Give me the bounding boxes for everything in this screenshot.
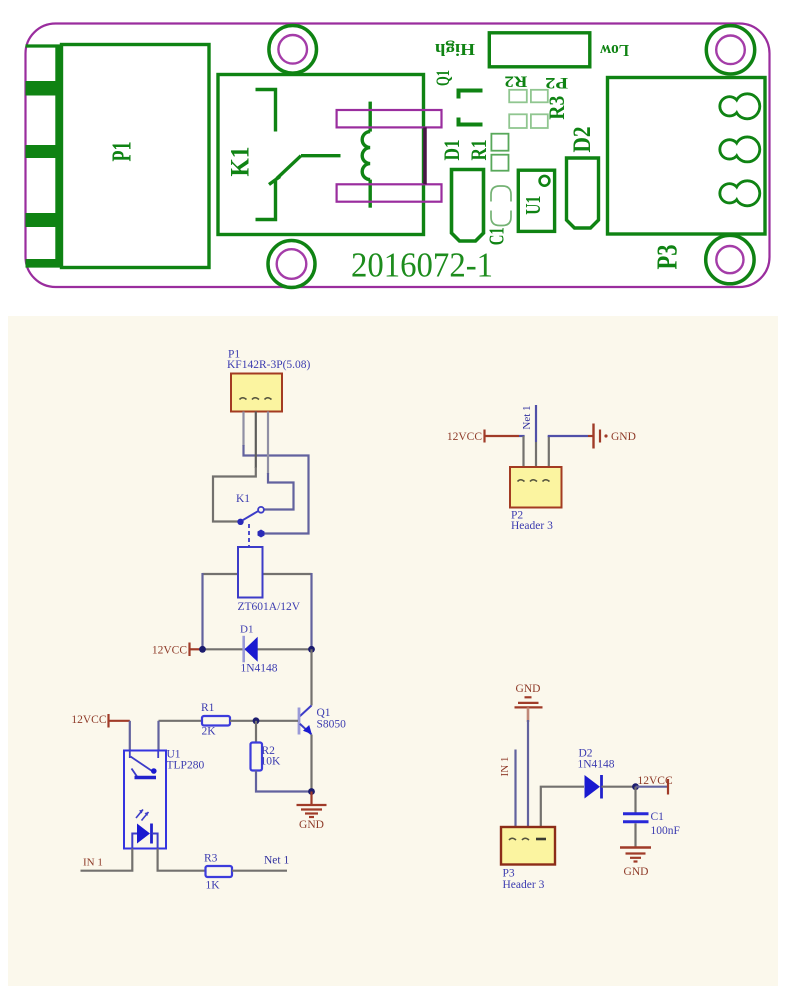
ground (top, inverted): [515, 683, 543, 722]
label C1 (schematic): [651, 811, 680, 837]
wire P2 pin1: [519, 436, 525, 467]
label P3: [651, 245, 683, 270]
resistor R2 / header P2 pads (pale): [509, 90, 548, 128]
capacitor C1 (schematic): [623, 814, 649, 822]
U1 led arrows: [136, 810, 149, 821]
relay K1 contact NO: [258, 507, 264, 513]
board outline: [26, 24, 770, 288]
svg-text:IN 1: IN 1: [499, 757, 511, 777]
mounting hole top-right: [706, 26, 754, 74]
P3 pin 2: [720, 137, 760, 162]
svg-text:Q1: Q1: [317, 707, 331, 719]
svg-text:KF142R-3P(5.08): KF142R-3P(5.08): [227, 359, 311, 371]
wire base row: [159, 720, 203, 722]
K1 top-left bracket: [256, 90, 276, 132]
svg-text:K1: K1: [236, 493, 250, 505]
wire P1 pin3: [262, 412, 294, 510]
wire in1 down to header: [514, 750, 516, 828]
resistor R1 (schematic): [202, 716, 230, 726]
wire R2 bottom: [256, 771, 312, 792]
wire gnd down to header: [527, 720, 529, 827]
wire C1 to gnd: [634, 823, 636, 847]
diode D1 (schematic): [244, 636, 258, 663]
K1 bottom-left bracket: [256, 181, 276, 220]
junction 12vcc: [632, 783, 639, 790]
svg-text:C1: C1: [484, 227, 508, 245]
connector P1 footprint: [26, 45, 210, 268]
svg-text:2K: 2K: [202, 726, 217, 738]
wire diode row: [203, 648, 312, 650]
power port 12VCC (P2): [447, 430, 519, 444]
P3 pin 1: [720, 94, 760, 119]
svg-text:12VCC: 12VCC: [638, 775, 673, 787]
relay K1 coil: [238, 547, 263, 598]
label Net 1 (vertical): [521, 405, 533, 429]
wire junction to C1: [634, 787, 636, 813]
label D1 (pcb): [439, 140, 464, 161]
label R2 (schematic): [261, 745, 282, 768]
U1 phototransistor: [130, 751, 158, 778]
wire IN1: [81, 849, 133, 871]
label P2 (schematic): [511, 510, 553, 533]
mounting hole bottom-middle: [268, 241, 315, 288]
label High: [434, 40, 475, 59]
wire collector: [310, 649, 312, 705]
label R1 (pcb): [466, 140, 491, 161]
power port 12VCC (diode row): [152, 643, 203, 657]
jumper selector box High/Low: [489, 33, 590, 67]
label R1 (schematic): [201, 702, 216, 738]
svg-text:12VCC: 12VCC: [71, 714, 106, 726]
resistor R1 pads: [491, 134, 508, 171]
junction gnd: [308, 788, 315, 795]
power port GND (P2): [588, 424, 636, 449]
wire P1 pin1: [244, 412, 309, 534]
wire P2 pin2 / net1: [535, 405, 537, 467]
relay K1 blade: [243, 511, 259, 521]
svg-text:1N4148: 1N4148: [578, 759, 615, 771]
transistor Q1 (schematic): [299, 706, 312, 735]
label coil value: [238, 601, 301, 613]
capacitor C1 footprint (dashed): [491, 186, 511, 226]
svg-text:GND: GND: [611, 431, 636, 443]
schematic background: [8, 316, 778, 986]
U1 led: [132, 824, 157, 849]
mounting hole top-middle: [269, 26, 317, 74]
label K1: [226, 147, 255, 177]
svg-text:R1: R1: [201, 702, 215, 714]
junction left: [199, 646, 206, 653]
svg-text:P3: P3: [503, 868, 515, 880]
svg-text:R3: R3: [544, 96, 569, 120]
K1 coil: [362, 102, 370, 208]
P3 pin 3: [720, 181, 760, 206]
label IN 1 (vertical): [499, 757, 511, 777]
ground (right bottom): [620, 848, 651, 879]
K1 switch: [269, 156, 341, 185]
svg-text:K1: K1: [226, 147, 255, 177]
wire 12vcc to U1 pin: [129, 721, 131, 751]
svg-text:100nF: 100nF: [651, 825, 680, 837]
connector P3 footprint: [608, 78, 766, 235]
svg-text:Net 1: Net 1: [264, 855, 289, 867]
board title 2016072-1: [351, 246, 493, 285]
svg-text:U1: U1: [521, 196, 545, 215]
diode D1 footprint: [452, 170, 484, 242]
label header P3 (schematic): [503, 868, 545, 892]
svg-text:P2: P2: [545, 74, 568, 91]
label R3: [544, 96, 569, 120]
svg-text:GND: GND: [624, 866, 649, 878]
label Low: [599, 41, 629, 60]
connector P1 (schematic): [231, 374, 282, 412]
diode D2 footprint: [567, 158, 599, 228]
relay K1 actuator dashed: [248, 524, 250, 547]
relay K1 footprint box: [218, 75, 424, 235]
label P1: [106, 142, 136, 162]
wire coil left down: [201, 573, 203, 649]
wire P2 pin3: [548, 436, 588, 467]
svg-text:Header 3: Header 3: [511, 520, 553, 532]
label U1 (schematic): [167, 749, 205, 772]
svg-text:High: High: [434, 40, 475, 59]
svg-text:TLP280: TLP280: [167, 760, 205, 772]
wire P1 pin2: [213, 412, 256, 522]
svg-text:C1: C1: [651, 811, 665, 823]
label IN 1: [83, 857, 103, 869]
label R2: [504, 73, 527, 90]
svg-text:Low: Low: [599, 41, 629, 60]
resistor R3 (schematic): [206, 866, 233, 877]
header P3 (schematic): [501, 827, 555, 865]
svg-text:Header 3: Header 3: [503, 879, 545, 891]
svg-text:P1: P1: [106, 142, 136, 162]
svg-text:10K: 10K: [261, 756, 282, 768]
header P2 (schematic): [510, 467, 562, 508]
wire diode to junction: [602, 786, 636, 788]
resistor R2 (schematic): [251, 743, 263, 771]
wire led cathode down: [158, 849, 206, 871]
wire coil right down: [310, 573, 312, 649]
label Q1 (schematic): [317, 707, 347, 731]
power port 12VCC (base row): [71, 714, 129, 728]
power port 12VCC (right): [636, 775, 673, 795]
label C1 (pcb): [484, 227, 508, 245]
svg-text:IN 1: IN 1: [83, 857, 103, 869]
svg-text:2016072-1: 2016072-1: [351, 246, 493, 285]
ground (left): [297, 792, 327, 832]
relay K1 contact NC pad: [258, 530, 265, 538]
wire U1 pin4 up: [157, 721, 159, 751]
svg-text:12VCC: 12VCC: [152, 645, 187, 657]
svg-text:GND: GND: [516, 683, 541, 695]
relay K1 pole: [237, 519, 243, 525]
relay footprint pad bar bottom (magenta): [337, 184, 442, 201]
label R3 (schematic): [204, 853, 220, 892]
svg-text:R2: R2: [504, 73, 527, 90]
svg-text:Net 1: Net 1: [521, 405, 533, 429]
label K1 (schematic): [236, 493, 250, 505]
svg-text:P3: P3: [651, 245, 683, 270]
diode D2 (schematic): [585, 775, 602, 799]
svg-text:1K: 1K: [206, 880, 221, 892]
wire emitter down: [310, 735, 312, 792]
wire net1: [232, 870, 287, 872]
svg-text:R3: R3: [204, 853, 218, 865]
svg-text:Q1: Q1: [433, 70, 454, 86]
optocoupler U1 (schematic): [124, 751, 166, 849]
relay footprint pad bar top (magenta): [337, 110, 442, 127]
label D1 (schematic): [240, 624, 278, 675]
svg-text:ZT601A/12V: ZT601A/12V: [238, 601, 301, 613]
svg-text:S8050: S8050: [317, 719, 347, 731]
svg-text:12VCC: 12VCC: [447, 431, 482, 443]
ic U1 footprint: [518, 170, 554, 231]
junction right: [308, 646, 315, 653]
svg-text:1N4148: 1N4148: [241, 663, 278, 675]
label Q1: [433, 70, 454, 86]
relay footprint inner edge (dark): [423, 127, 427, 184]
svg-text:D2: D2: [569, 127, 596, 153]
wire base row right: [230, 720, 298, 722]
label P1 (schematic): [227, 349, 311, 372]
junction base: [253, 717, 260, 724]
svg-text:D1: D1: [439, 140, 464, 161]
label D2 (pcb): [569, 127, 596, 153]
mounting hole bottom-right: [706, 235, 754, 283]
wire R2 top: [255, 721, 257, 743]
label U1 (pcb): [521, 196, 545, 215]
label P2: [545, 74, 568, 91]
wire coil row: [203, 573, 312, 575]
wire header pin3 to diode: [541, 787, 584, 827]
svg-text:R1: R1: [466, 140, 491, 161]
svg-text:D1: D1: [240, 624, 253, 636]
label Net 1: [264, 855, 289, 867]
transistor Q1 footprint: [459, 91, 483, 125]
svg-text:GND: GND: [299, 819, 324, 831]
label D2 (schematic): [578, 748, 615, 771]
